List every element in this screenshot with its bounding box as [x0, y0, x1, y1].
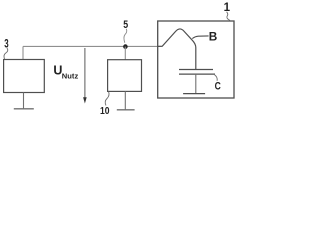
ground (inside box 1): bar	[183, 93, 205, 95]
capacitor C: bottom plate	[179, 73, 215, 75]
svg-text:5: 5	[123, 19, 128, 31]
component block 3	[4, 60, 45, 93]
label B with leader	[192, 29, 217, 43]
label 3 with leader	[4, 36, 9, 59]
label 1 with leader	[224, 2, 231, 20]
svg-text:B: B	[209, 29, 218, 43]
svg-text:C: C	[215, 81, 221, 93]
ground (left): stem	[23, 93, 25, 109]
membrane B (bump curve inside box 1)	[158, 29, 196, 69]
wire: stub from node 5 down to block 10	[124, 47, 126, 60]
label 5 with leader	[123, 19, 128, 43]
wire: capacitor to ground	[195, 74, 197, 93]
wire: stub from bus down to block 3	[22, 46, 24, 59]
label U_Nutz	[53, 64, 78, 81]
label 10 with leader	[100, 92, 110, 117]
svg-text:10: 10	[100, 106, 110, 117]
voltage arrow U_Nutz	[83, 48, 87, 104]
label C with leader	[215, 75, 221, 93]
ground (middle): stem	[124, 91, 126, 109]
ground (left): bar	[14, 108, 34, 110]
svg-text:Nutz: Nutz	[62, 72, 79, 81]
capacitor C: top plate	[179, 69, 213, 71]
node 5 (junction dot)	[123, 44, 128, 49]
enclosure box 1	[158, 21, 234, 98]
component block 10	[108, 60, 142, 92]
wire: main horizontal bus from block 3 to box 1	[23, 45, 162, 47]
ground (middle): bar	[117, 109, 135, 111]
svg-text:3: 3	[4, 36, 9, 50]
